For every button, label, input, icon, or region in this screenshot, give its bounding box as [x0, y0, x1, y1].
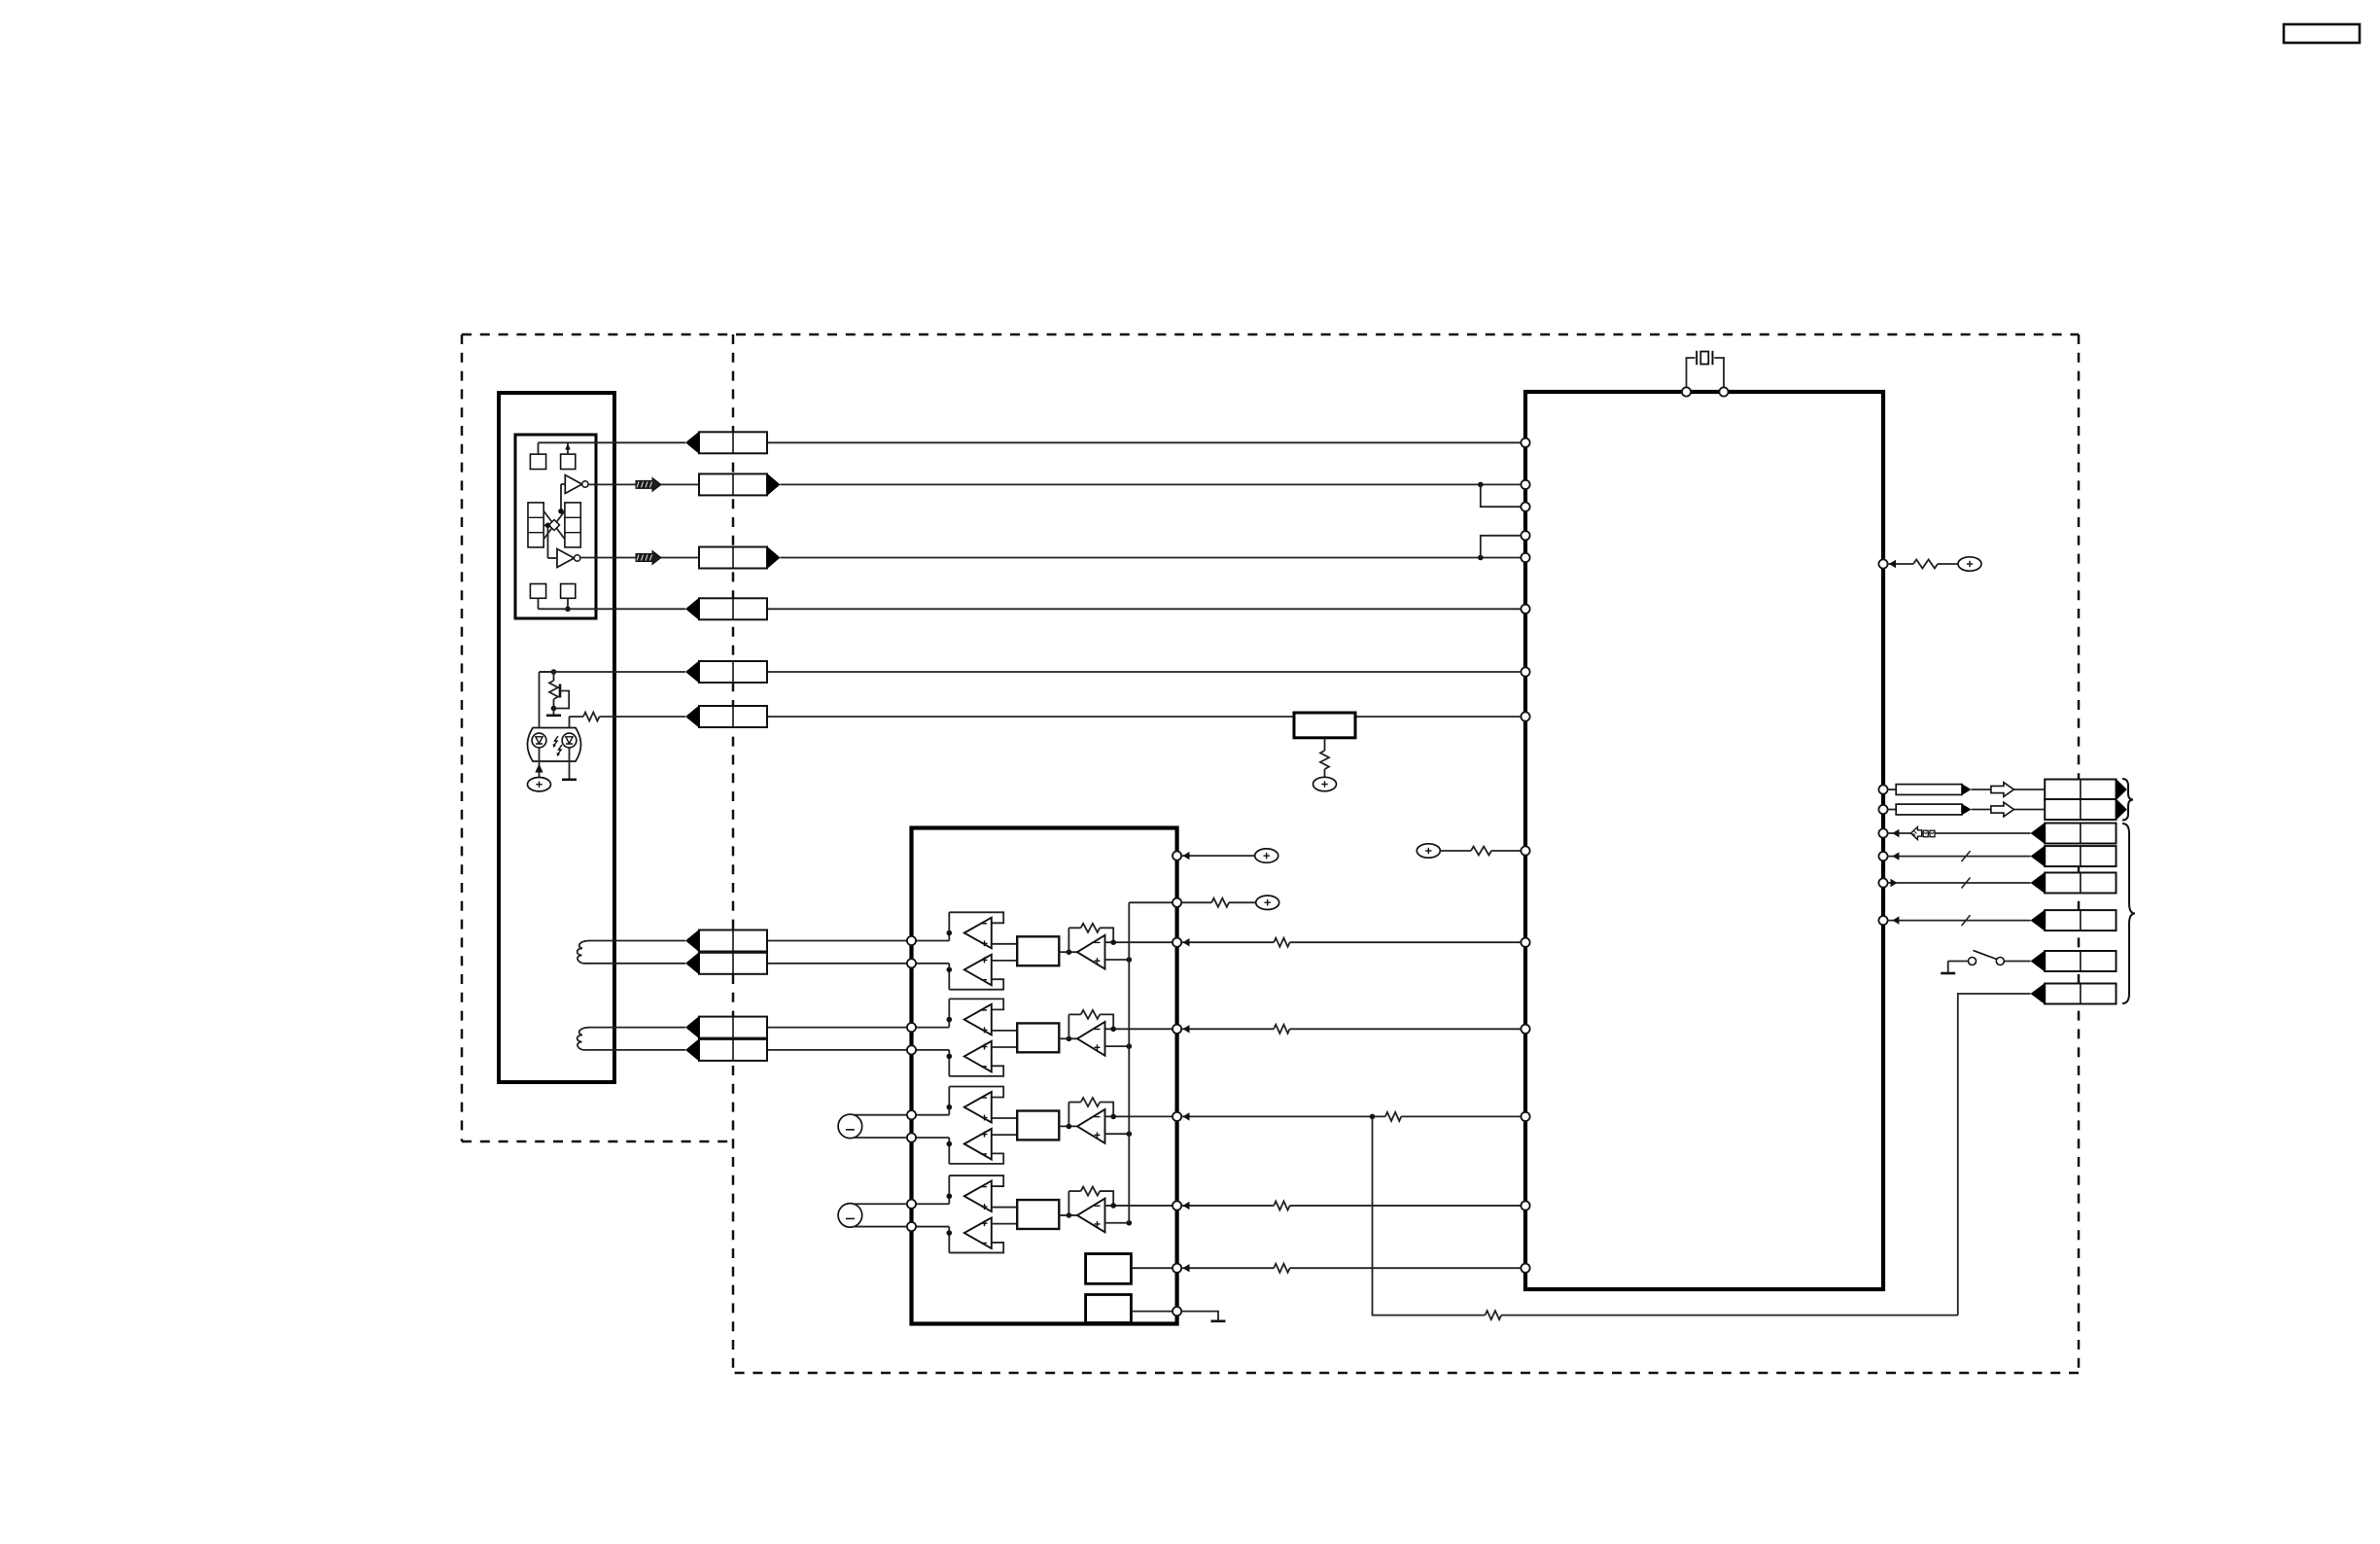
- wire P2a: [589, 1027, 685, 1029]
- ground G-left: [553, 709, 555, 715]
- node dot R1-C1: [551, 706, 557, 712]
- node dot E: [551, 669, 557, 675]
- resistor R1 vertical: [553, 672, 555, 681]
- driver pill P1: [1896, 785, 1962, 795]
- wire E: [540, 671, 686, 673]
- brace tall: [2122, 824, 2135, 1003]
- connector CN-R5: [2045, 873, 2116, 894]
- capacitor C1: [559, 684, 562, 698]
- wire to LED left: [539, 672, 541, 728]
- diamond junction: [549, 520, 560, 531]
- surge protector module inner box: [515, 435, 596, 618]
- wire BUS2: [1888, 882, 2031, 884]
- connector CN-F: [699, 706, 767, 727]
- dashed border right: [2078, 334, 2081, 1373]
- wire A: [539, 441, 686, 443]
- IC left pins: [1521, 439, 1529, 447]
- connector CN-C: [699, 547, 767, 569]
- wire C branch jog: [1481, 536, 1522, 558]
- wire F with resistor R2: [570, 716, 584, 718]
- supply V1 plus: [528, 778, 551, 791]
- varistor stack left column: [528, 503, 543, 547]
- dashed border top: [462, 333, 2079, 336]
- wire tip leads bottom: [538, 598, 540, 609]
- resistor R3 below NB1: [1324, 738, 1326, 751]
- IC top pins: [1682, 387, 1691, 396]
- brace small: [2122, 779, 2133, 821]
- audio source S2 minus: [838, 1204, 862, 1228]
- arrester block top-left: [530, 454, 545, 469]
- amplifier group 1: [916, 912, 1172, 989]
- wire B branch jog: [1481, 484, 1522, 507]
- hatched arrow B: [636, 477, 661, 491]
- connector CN-P1a: [699, 930, 767, 952]
- connector CN-P1b: [699, 953, 767, 974]
- supply V2 plus: [1313, 777, 1337, 790]
- codec block U2: [912, 828, 1177, 1324]
- wire node E junction: [540, 671, 554, 673]
- open arrow OA1: [1991, 783, 2013, 797]
- connector CN-R2: [2045, 799, 2116, 820]
- title box top-right: [2284, 24, 2360, 43]
- varistor stack right column: [565, 503, 580, 547]
- wire D: [539, 608, 686, 610]
- arrester block bottom-left: [530, 584, 545, 599]
- node dot B branch: [1478, 482, 1484, 488]
- wire FB1 out: [1131, 1267, 1172, 1269]
- supply V6 plus: [1958, 557, 1981, 571]
- crystal X1: [1696, 351, 1697, 365]
- wire tip leads top: [538, 442, 540, 454]
- arrester block top-right: [561, 454, 576, 469]
- connector CN-P2a: [699, 1017, 767, 1038]
- wire LED2 to ground: [569, 748, 571, 779]
- wire RXD: [1888, 832, 2031, 834]
- dashed border bottom: [733, 1372, 2079, 1375]
- dashed board divider vertical: [732, 334, 735, 1373]
- gas tube inverter G2: [557, 549, 580, 568]
- wire F corner down: [569, 717, 571, 728]
- bus icon squares: [1923, 830, 1928, 837]
- wire BUS3: [1888, 920, 2031, 922]
- cross coupling X: [543, 511, 565, 540]
- driver pill P2: [1896, 804, 1962, 815]
- arrowhead up at node: [565, 443, 570, 450]
- ground G-opto: [562, 778, 577, 781]
- wire SW1 to ground: [1948, 961, 1969, 963]
- connector CN-R6: [2045, 910, 2116, 930]
- wire g3 with resistor R7: [1181, 1115, 1385, 1117]
- amplifier group 4: [916, 1176, 1172, 1252]
- network box NB1: [1294, 713, 1355, 738]
- ground G-FB2: [1211, 1320, 1226, 1323]
- wire P1b: [589, 963, 685, 965]
- wire TXD1: [1888, 789, 1897, 790]
- main IC U3: [1525, 392, 1883, 1289]
- node dot G2: [545, 523, 551, 529]
- node dot G1: [558, 509, 564, 514]
- crystal X1 circuit: [1687, 358, 1696, 388]
- coil L1: [577, 941, 590, 964]
- bias rail wire: [1129, 901, 1172, 903]
- connector CN-P2b: [699, 1039, 767, 1061]
- feedback wire from CN-R8: [1373, 1116, 1486, 1315]
- arrowhead up supply: [535, 764, 542, 773]
- connector CN-E: [699, 661, 767, 683]
- wire bias with resistor R4: [1181, 901, 1211, 903]
- wire V5 to IC with resistor R10: [1440, 850, 1471, 852]
- wire P1a: [589, 940, 685, 942]
- IC right pins: [1878, 559, 1887, 568]
- open arrow OA2: [1991, 802, 2013, 817]
- supply V5 plus: [1417, 844, 1440, 858]
- wires S2: [854, 1203, 908, 1205]
- ground G-SW1: [1941, 972, 1955, 975]
- connector CN-R1: [2045, 780, 2116, 800]
- connector CN-R8: [2045, 984, 2116, 1004]
- wire G2 input: [548, 557, 558, 559]
- node dot bottom: [565, 607, 571, 613]
- mid block right pins: [1172, 852, 1181, 860]
- LED D1: [532, 733, 546, 748]
- connector CN-R4: [2045, 846, 2116, 866]
- connector CN-R7: [2045, 951, 2116, 971]
- light arrows: [553, 736, 562, 756]
- wire g4 with resistor R8: [1181, 1205, 1274, 1207]
- wire BUS1: [1888, 856, 2031, 858]
- arrester block bottom-right: [561, 584, 576, 599]
- wire LED1 cathode: [539, 748, 541, 761]
- connector CN-A: [699, 432, 767, 453]
- amplifier group 2: [916, 999, 1172, 1075]
- wire AVREF with resistor R11: [1888, 563, 1913, 565]
- hatched arrow C: [636, 551, 661, 565]
- gas tube inverter G1: [565, 475, 588, 494]
- slash BUS1: [1962, 851, 1971, 861]
- function box FB1: [1086, 1254, 1132, 1284]
- switch SW1: [2004, 961, 2030, 963]
- wire P2b: [589, 1049, 685, 1051]
- node dot g3 feedback: [1370, 1114, 1376, 1120]
- audio source S1 minus: [838, 1114, 862, 1139]
- amplifier group 3: [916, 1087, 1172, 1164]
- supply V4 plus: [1256, 895, 1279, 909]
- wires S1: [854, 1114, 908, 1116]
- wire FB2 to ground: [1181, 1312, 1218, 1320]
- connector CN-B: [699, 474, 767, 495]
- wire FB1 to IC with resistor R9: [1181, 1267, 1274, 1269]
- wire g2 with resistor R6: [1181, 1028, 1274, 1030]
- dashed border left: [461, 334, 464, 1141]
- supply V3 plus: [1255, 849, 1278, 862]
- wire B: [588, 483, 699, 485]
- dashed border bottom-left: [462, 1140, 733, 1143]
- wire TXD2: [1888, 809, 1897, 811]
- wire FB2 out: [1131, 1311, 1172, 1313]
- node dot C branch: [1478, 555, 1484, 561]
- line interface block U1: [499, 393, 614, 1082]
- connector CN-R3: [2045, 824, 2116, 844]
- function box FB2: [1086, 1295, 1132, 1323]
- connector CN-D: [699, 598, 767, 619]
- wire g1 with resistor R5: [1181, 941, 1274, 943]
- mid block left pins: [907, 936, 916, 945]
- bus icon open arrow left: [1910, 827, 1921, 840]
- slash BUS3: [1962, 915, 1971, 926]
- LED D2: [562, 733, 577, 748]
- slash BUS2: [1962, 878, 1971, 889]
- optocoupler PC1 body: [528, 728, 581, 762]
- wire G1 input: [561, 483, 565, 485]
- wire C: [580, 557, 699, 559]
- coil L2: [577, 1028, 590, 1050]
- wire VCC to U2: [1181, 855, 1255, 857]
